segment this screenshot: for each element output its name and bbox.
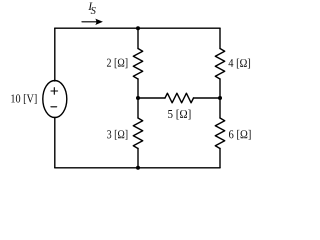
junction node middle right xyxy=(218,96,222,100)
junction node bottom xyxy=(136,166,140,170)
resistor 5 ohm xyxy=(165,93,194,103)
resistor 3 ohm xyxy=(133,118,142,149)
wire bottom xyxy=(55,167,220,169)
wire top xyxy=(55,27,220,29)
label Is subscript S xyxy=(91,7,96,14)
wire middle horizontal left lead xyxy=(138,97,165,99)
label 2 ohm xyxy=(107,58,127,68)
label Is current xyxy=(88,2,92,10)
voltage source V1 10V ellipse xyxy=(43,81,67,118)
wire right branch upper lead xyxy=(219,28,221,48)
resistor 2 ohm xyxy=(133,49,142,80)
wire middle branch upper lead xyxy=(137,28,139,48)
voltage source plus sign xyxy=(51,88,58,95)
wire middle horizontal right lead xyxy=(194,97,221,99)
current arrow Is shaft xyxy=(82,21,99,23)
voltage source minus sign xyxy=(51,106,57,108)
junction node top xyxy=(136,26,140,30)
wire middle branch lower lead xyxy=(137,149,139,168)
resistor 4 ohm xyxy=(215,49,224,80)
label 10 V xyxy=(11,94,36,104)
label 3 ohm xyxy=(107,130,127,140)
junction node middle left xyxy=(136,96,140,100)
current arrow head xyxy=(95,19,103,25)
wire left lower xyxy=(54,118,56,168)
label 6 ohm xyxy=(229,130,251,140)
label 5 ohm xyxy=(168,110,190,120)
resistor 6 ohm xyxy=(215,118,224,149)
label 4 ohm xyxy=(229,59,251,69)
wire middle branch between 2ohm and node xyxy=(137,79,139,118)
wire right branch middle xyxy=(219,79,221,118)
wire right branch lower lead xyxy=(219,149,221,168)
wire left upper xyxy=(54,28,56,81)
